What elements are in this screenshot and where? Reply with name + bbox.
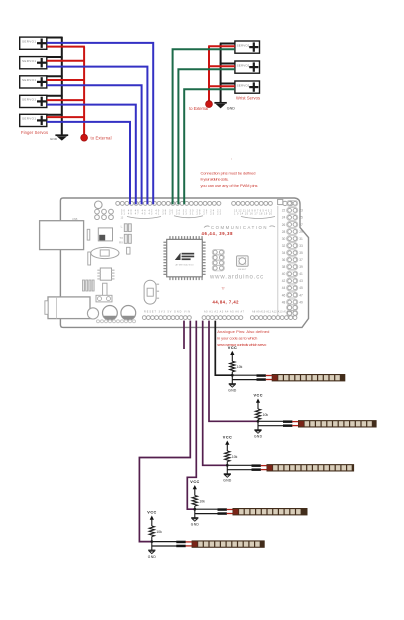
wire node to ground (sensor 1): [231, 375, 233, 383]
microcontroller U1 ATmega2560: [163, 236, 205, 280]
VCC supply (sensor 5): [147, 511, 156, 527]
wire SV6 V+ (red): [208, 45, 235, 47]
svg-text:10k: 10k: [263, 413, 269, 417]
svg-text:47: 47: [299, 293, 303, 297]
svg-text:GND: GND: [148, 555, 157, 559]
capacitor C2 (electrolytic): [121, 306, 136, 321]
node junction (sensor 3): [226, 464, 229, 467]
wire SV4 GND (black): [47, 95, 63, 97]
servo SV6 (wrist): [235, 41, 260, 53]
svg-text:23: 23: [299, 209, 303, 213]
svg-text:41: 41: [299, 272, 303, 276]
ground (sensor 4): [191, 518, 200, 527]
capacitor C1 (electrolytic): [103, 306, 118, 321]
servo SV4 (finger): [20, 95, 47, 107]
mounting hole top-left: [95, 201, 103, 209]
wire SV3 signal (blue): [47, 85, 142, 204]
svg-text:VCC: VCC: [254, 394, 263, 398]
svg-text:COMMUNICATION: COMMUNICATION: [211, 225, 268, 230]
pin header (2x4) right of chip: [212, 249, 224, 255]
svg-text:SERVO1: SERVO1: [22, 59, 36, 63]
svg-text:GND: GND: [227, 107, 235, 111]
svg-text:32: 32: [282, 244, 286, 248]
servo SV2 (finger): [20, 57, 47, 69]
wire node to ground (sensor 5): [151, 542, 153, 550]
svg-text:44: 44: [282, 286, 286, 290]
wire resistor to node (sensor 4): [194, 506, 196, 509]
wire SV5 signal (blue): [47, 122, 130, 204]
wire resistor to node (sensor 5): [151, 537, 153, 542]
svg-text:77: 77: [222, 286, 226, 290]
svg-text:RESET 3V3 5V GND VIN: RESET 3V3 5V GND VIN: [144, 311, 190, 314]
svg-text:48: 48: [282, 300, 286, 304]
red power bus (wrist servos): [208, 46, 210, 100]
wire node to sensor upper lead (sensor 4): [195, 508, 220, 510]
bottom pin header rows: [142, 316, 296, 320]
wire node to ground (sensor 2): [257, 421, 259, 429]
svg-text:VCC: VCC: [190, 480, 199, 484]
wire sensor lower lead (sensor 4): [195, 513, 220, 515]
USB connector J1: [40, 221, 84, 250]
sensor FS4 connector: [218, 508, 234, 515]
power jack X1: [48, 297, 90, 319]
resistor R3 10k: [225, 451, 230, 462]
svg-text:GND: GND: [50, 137, 58, 141]
crystal Y2 (16U2): [144, 280, 156, 304]
TX RX LEDs: [124, 224, 127, 232]
svg-text:SERVO1: SERVO1: [22, 40, 36, 44]
wire SV1 GND (black): [47, 37, 63, 39]
svg-text:27: 27: [299, 223, 303, 227]
svg-text:40: 40: [282, 272, 286, 276]
svg-text:46: 46: [282, 293, 286, 297]
svg-text:39: 39: [299, 265, 303, 269]
VCC supply (sensor 3): [223, 436, 232, 452]
svg-text:24: 24: [282, 216, 286, 220]
svg-text:L.: L.: [121, 224, 124, 228]
wire analog A1 (purple) to sensor 2: [209, 321, 257, 422]
wire resistor to node (sensor 3): [226, 462, 228, 466]
wire node to sensor upper lead (sensor 3): [227, 464, 253, 466]
wire node to ground (sensor 3): [226, 465, 228, 473]
svg-text:26: 26: [282, 223, 286, 227]
resistor R5 10k: [149, 526, 154, 537]
svg-text:in your arduino code,: in your arduino code,: [201, 177, 229, 182]
note: analogue pins: [217, 329, 269, 347]
svg-text:SERVO1: SERVO1: [22, 117, 36, 121]
ground (wrist servos): [214, 103, 235, 111]
svg-text:1 0 14 15 16 17 18 19 20: 1 0 14 15 16 17 18 19 20: [234, 213, 273, 216]
ground (sensor 1): [228, 384, 237, 393]
svg-text:34: 34: [282, 251, 286, 255]
svg-text:GND: GND: [228, 388, 237, 392]
wire SV8 GND (black): [220, 83, 235, 85]
svg-text:10k: 10k: [156, 530, 162, 534]
VCC supply (sensor 1): [228, 346, 237, 362]
wire SV4 signal (blue): [47, 105, 136, 205]
crystal Y1: [91, 247, 119, 258]
voltage regulator: [96, 295, 112, 302]
node: to External (left power): [81, 134, 112, 141]
svg-text:43: 43: [299, 279, 303, 283]
square pad top right: [278, 199, 283, 204]
capacitor near jack: [87, 308, 98, 319]
svg-text:10k: 10k: [232, 455, 238, 459]
svg-text:Wrist Servos: Wrist Servos: [236, 96, 260, 101]
wire analog stub: [183, 321, 185, 349]
wire node to sensor upper lead (sensor 2): [258, 420, 285, 422]
wire SV6 GND (black): [220, 43, 235, 45]
svg-text:RESET: RESET: [238, 269, 247, 271]
wire analog A3 (purple) to sensor 4: [187, 321, 196, 510]
svg-text:46,44, 39,38: 46,44, 39,38: [202, 231, 234, 236]
svg-text:30: 30: [282, 237, 286, 241]
2x2 header bottom right: [287, 305, 298, 311]
svg-text:37: 37: [299, 258, 303, 262]
svg-text:GND: GND: [223, 479, 232, 483]
flex sensor FS5: [192, 540, 265, 547]
servo SV5 (finger): [20, 114, 47, 126]
right dual pin header (22-53): [277, 206, 279, 316]
ground (finger servos): [50, 135, 68, 141]
resistor network: [83, 280, 85, 291]
wire SV4 V+ (red): [47, 99, 85, 101]
wire SV6 signal (green): [173, 49, 235, 204]
wire SV7 GND (black): [220, 63, 235, 65]
svg-text:42: 42: [282, 279, 286, 283]
svg-text:36: 36: [282, 258, 286, 262]
wire resistor to node (sensor 2): [257, 420, 259, 422]
wire node to sensor upper lead (sensor 1): [232, 374, 258, 376]
resistor R4 10k: [192, 496, 197, 507]
svg-text:28: 28: [282, 230, 286, 234]
svg-text:SERVO1: SERVO1: [22, 78, 36, 82]
svg-text:VCC: VCC: [223, 436, 232, 440]
svg-text:10k: 10k: [237, 365, 243, 369]
sensor FS3 connector: [252, 464, 268, 471]
svg-text:Finger Servos: Finger Servos: [21, 130, 48, 135]
svg-text:31: 31: [299, 237, 303, 241]
wire analog A4 (purple) to sensor 5: [139, 321, 190, 542]
wire SV3 GND (black): [47, 75, 63, 77]
wire node to ground (sensor 4): [194, 509, 196, 517]
ICSP header (2x3): [95, 209, 100, 214]
resistor R1 10k: [230, 361, 235, 372]
wire SV1 signal (blue): [47, 43, 153, 204]
VCC supply (sensor 2): [254, 394, 263, 410]
wire SV5 V+ (red): [47, 116, 85, 118]
small pad row bottom-left: [97, 320, 100, 323]
sensor FS2 connector: [283, 420, 299, 427]
node junction (sensor 4): [193, 508, 196, 511]
op-amp IC (8-pin): [100, 268, 111, 280]
wire SV2 GND (black): [47, 56, 63, 58]
wire SV2 signal (blue): [47, 67, 148, 205]
svg-text:to External: to External: [91, 135, 112, 140]
svg-text:33: 33: [299, 244, 303, 248]
resistor R2 10k: [255, 409, 260, 420]
flex sensor FS1: [272, 374, 346, 381]
PWM group braces: [127, 217, 161, 219]
svg-text:A8 A9 A10 A11 A12 A13 A14 A15: A8 A9 A10 A11 A12 A13 A14 A15: [252, 311, 295, 314]
wire SV2 V+ (red): [47, 60, 85, 62]
svg-text:SERVO1: SERVO1: [237, 63, 250, 67]
svg-text:RX: RX: [119, 241, 123, 245]
wire analog A0 (black) to sensor 1: [215, 321, 231, 376]
servo SV3 (finger): [20, 76, 47, 88]
wire resistor to node (sensor 1): [231, 372, 233, 375]
capacitor C3: [127, 247, 130, 254]
node: to External (right power): [189, 100, 212, 111]
flex sensor FS3: [267, 464, 355, 471]
servo SV7 (wrist): [235, 61, 260, 73]
small resistor left column: [88, 252, 91, 265]
svg-text:10k: 10k: [199, 499, 205, 503]
ATmega16U2 chip: [98, 228, 112, 241]
wire analog A2 (purple) to sensor 3: [203, 321, 227, 466]
svg-text:35: 35: [299, 251, 303, 255]
wire SV5 GND (black): [47, 114, 63, 116]
node junction (sensor 5): [150, 540, 153, 543]
wire SV3 V+ (red): [47, 79, 85, 81]
svg-text:GND: GND: [254, 435, 263, 439]
wire SV8 V+ (red): [208, 85, 235, 87]
wire SV7 V+ (red): [208, 65, 235, 67]
node junction (sensor 2): [257, 420, 260, 423]
svg-text:you can use any of the PWM pin: you can use any of the PWM pins: [201, 183, 258, 188]
svg-text:in your code as to which: in your code as to which: [217, 336, 257, 341]
svg-text:49: 49: [299, 300, 303, 304]
svg-text:GND: GND: [191, 522, 200, 526]
servo SV1 (finger): [20, 37, 47, 49]
wire node to sensor upper lead (sensor 5): [152, 541, 179, 543]
COMMUNICATION silkscreen: [204, 226, 210, 228]
svg-text:SERVO1: SERVO1: [22, 98, 36, 102]
svg-text:VCC: VCC: [147, 511, 156, 515]
svg-text:www.arduino.cc: www.arduino.cc: [209, 275, 264, 281]
svg-text:servo sensor controls which se: servo sensor controls which servo: [217, 342, 267, 347]
svg-text:Analogue Pins: Also defined: Analogue Pins: Also defined: [217, 329, 269, 334]
svg-text:38: 38: [282, 265, 286, 269]
black ground bus (wrist servos): [220, 44, 222, 103]
wire SV1 V+ (red): [47, 46, 85, 48]
node junction (sensor 1): [231, 374, 234, 377]
ground (sensor 3): [223, 474, 232, 483]
note: connection pins: [201, 171, 258, 188]
svg-text:to External: to External: [189, 106, 208, 111]
ground (sensor 5): [148, 550, 157, 559]
transistor Q1: [103, 283, 107, 296]
svg-text:44,84, 7,42: 44,84, 7,42: [213, 300, 240, 305]
wire sensor lower lead (sensor 5): [152, 545, 179, 547]
svg-text:22: 22: [282, 209, 286, 213]
wire SV7 signal (green): [178, 69, 235, 204]
svg-text:A0 A1 A2 A3 A4 A5 A6 A7: A0 A1 A2 A3 A4 A5 A6 A7: [204, 311, 245, 314]
svg-text:Connection pins must be define: Connection pins must be defined: [201, 171, 256, 176]
svg-text:SERVO1: SERVO1: [237, 43, 250, 47]
svg-text:29: 29: [299, 230, 303, 234]
svg-text:USB: USB: [72, 217, 78, 221]
svg-text:25: 25: [299, 216, 303, 220]
flex sensor FS2: [298, 420, 377, 427]
servo SV8 (wrist): [235, 81, 260, 93]
sensor FS1 connector: [257, 374, 273, 381]
wire sensor lower lead (sensor 1): [232, 379, 258, 381]
red power bus (finger servos): [83, 47, 85, 135]
sensor FS5 connector: [176, 541, 193, 548]
ground (sensor 2): [254, 430, 263, 439]
svg-text:45: 45: [299, 286, 303, 290]
wire SV8 signal (green): [184, 89, 235, 204]
flex sensor FS4: [233, 508, 308, 515]
Arduino Mega 2560 board outline: [60, 198, 308, 327]
VCC supply (sensor 4): [190, 480, 199, 496]
wire sensor lower lead (sensor 3): [227, 469, 253, 471]
top pin header row (digital/PWM): [116, 201, 293, 205]
black ground bus (finger servos): [61, 37, 63, 135]
svg-text:VCC: VCC: [228, 346, 237, 350]
reset button S1: [237, 256, 249, 266]
wire sensor lower lead (sensor 2): [258, 425, 285, 427]
svg-text:SERVO1: SERVO1: [237, 83, 250, 87]
capacitor next to USB: [87, 229, 90, 240]
svg-text:': ': [231, 158, 232, 163]
svg-text:ATMEGA2560: ATMEGA2560: [176, 263, 195, 266]
svg-text:TX: TX: [119, 236, 123, 240]
